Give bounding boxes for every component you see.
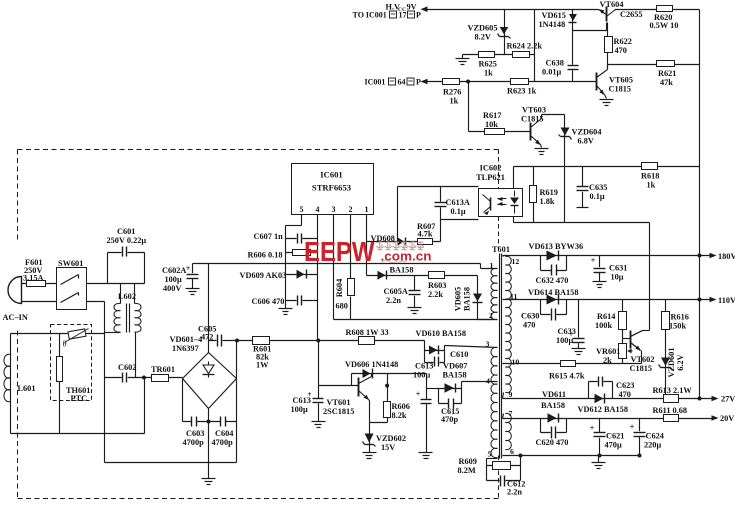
svg-text:C605A: C605A [384, 287, 408, 296]
svg-text:.com.cn: .com.cn [381, 250, 432, 264]
svg-text:220μ: 220μ [644, 441, 661, 450]
svg-text:C631: C631 [609, 264, 627, 273]
svg-text:R615 4.7k: R615 4.7k [549, 372, 585, 381]
svg-text:IC001: IC001 [365, 78, 386, 87]
svg-text:1k: 1k [450, 97, 459, 106]
svg-text:0.1μ: 0.1μ [451, 207, 466, 216]
svg-text:VD606 1N4148: VD606 1N4148 [345, 360, 398, 369]
svg-text:BA158: BA158 [463, 287, 472, 311]
svg-text:TLP621: TLP621 [476, 173, 505, 182]
svg-text:P: P [416, 11, 421, 20]
svg-text:C623: C623 [616, 381, 634, 390]
svg-text:C635: C635 [589, 183, 607, 192]
svg-text:P: P [416, 78, 421, 87]
svg-text:100μ: 100μ [165, 275, 182, 284]
svg-text:R606: R606 [392, 402, 410, 411]
svg-text:R617: R617 [483, 111, 501, 120]
svg-text:47k: 47k [660, 78, 673, 87]
svg-text:15V: 15V [381, 443, 395, 452]
svg-text:9: 9 [509, 390, 513, 399]
svg-text:R624 2.2k: R624 2.2k [507, 42, 543, 51]
svg-text:+: + [630, 423, 635, 432]
svg-text:1: 1 [490, 261, 494, 270]
svg-text:17: 17 [399, 11, 407, 20]
svg-text:110V: 110V [718, 296, 735, 305]
svg-text:C602A: C602A [162, 266, 186, 275]
svg-text:7: 7 [509, 409, 513, 418]
svg-text:C638: C638 [546, 59, 564, 68]
svg-text:VZD602: VZD602 [376, 434, 406, 443]
svg-text:6.8V: 6.8V [578, 137, 594, 146]
svg-text:8.2V: 8.2V [475, 33, 491, 42]
svg-text:TR601: TR601 [151, 365, 175, 374]
svg-text:C624: C624 [646, 432, 664, 441]
svg-text:C610: C610 [450, 350, 468, 359]
svg-text:5: 5 [488, 450, 492, 459]
svg-text:250V 0.22μ: 250V 0.22μ [107, 236, 147, 245]
svg-text:VD615: VD615 [542, 11, 566, 20]
svg-text:C603: C603 [186, 429, 204, 438]
svg-text:470μ: 470μ [605, 441, 622, 450]
svg-text:C1815: C1815 [521, 115, 544, 124]
svg-text:C606 470: C606 470 [252, 297, 285, 306]
svg-text:11: 11 [510, 292, 517, 301]
svg-text:C601: C601 [117, 227, 135, 236]
svg-text:VD609 AK03: VD609 AK03 [240, 271, 287, 280]
svg-text:C630: C630 [521, 312, 539, 321]
svg-text:6.2V: 6.2V [676, 354, 685, 370]
svg-text:6: 6 [510, 447, 514, 456]
svg-text:R609: R609 [459, 457, 477, 466]
svg-text:C621: C621 [606, 432, 624, 441]
svg-text:R622: R622 [614, 37, 632, 46]
svg-text:BA158: BA158 [541, 401, 565, 410]
svg-text:3: 3 [332, 205, 336, 214]
svg-text:4: 4 [486, 377, 490, 386]
svg-text:EEPW: EEPW [304, 236, 375, 267]
svg-text:12: 12 [512, 257, 520, 266]
svg-text:472: 472 [201, 333, 213, 342]
svg-text:C613A: C613A [446, 198, 470, 207]
svg-text:VT602: VT602 [631, 355, 655, 364]
svg-text:1k: 1k [484, 69, 493, 78]
svg-text:C607 1n: C607 1n [254, 232, 284, 241]
svg-text:10k: 10k [485, 120, 498, 129]
svg-text:R621: R621 [658, 69, 676, 78]
svg-text:VZD605: VZD605 [468, 24, 498, 33]
svg-text:150k: 150k [669, 322, 686, 331]
svg-text:PTC: PTC [71, 394, 88, 403]
svg-text:0.1μ: 0.1μ [590, 192, 605, 201]
svg-text:SW601: SW601 [58, 259, 83, 268]
svg-text:C602: C602 [118, 363, 136, 372]
svg-text:+: + [307, 390, 312, 399]
svg-text:C613: C613 [415, 362, 433, 371]
svg-text:1N6397: 1N6397 [172, 344, 199, 353]
svg-text:θ: θ [63, 339, 67, 349]
svg-text:4: 4 [316, 205, 320, 214]
svg-text:R616: R616 [671, 313, 689, 322]
svg-text:C632 470: C632 470 [536, 276, 569, 285]
svg-text:+: + [590, 424, 595, 433]
svg-text:R614: R614 [597, 312, 615, 321]
svg-text:VD601–4: VD601–4 [170, 335, 203, 344]
svg-text:100k: 100k [595, 321, 612, 330]
svg-text:R606 0.18: R606 0.18 [248, 251, 283, 260]
svg-text:+: + [416, 390, 421, 399]
svg-text:TO IC001: TO IC001 [353, 11, 387, 20]
svg-text:R603: R603 [428, 281, 446, 290]
svg-text:4700p: 4700p [183, 438, 205, 447]
svg-text:VD605: VD605 [454, 287, 463, 311]
svg-text:R613 2.1W: R613 2.1W [653, 386, 693, 395]
svg-text:IC602: IC602 [480, 164, 502, 173]
svg-text:VT604: VT604 [600, 0, 624, 9]
svg-text:T601: T601 [492, 245, 510, 254]
svg-text:VD610 BA158: VD610 BA158 [416, 329, 466, 338]
svg-text:2SC1815: 2SC1815 [323, 407, 354, 416]
svg-text:VD612 BA158: VD612 BA158 [578, 405, 628, 414]
svg-text:1N4148: 1N4148 [539, 20, 566, 29]
svg-text:R619: R619 [540, 188, 558, 197]
svg-text:VD613 BYW36: VD613 BYW36 [529, 242, 584, 251]
svg-text:VD611: VD611 [542, 390, 566, 399]
svg-text:680: 680 [336, 302, 348, 311]
svg-text:27V: 27V [721, 395, 735, 404]
svg-text:R276: R276 [443, 88, 461, 97]
svg-text:470: 470 [523, 321, 535, 330]
svg-text:L601: L601 [18, 384, 36, 393]
svg-text:AC–IN: AC–IN [3, 313, 28, 322]
svg-text:VD607: VD607 [443, 362, 467, 371]
svg-text:R623 1k: R623 1k [507, 87, 537, 96]
svg-text:3: 3 [486, 340, 490, 349]
svg-text:VD614 BA158: VD614 BA158 [528, 288, 578, 297]
svg-text:100μ: 100μ [291, 405, 308, 414]
svg-text:400V: 400V [163, 284, 181, 293]
svg-text:+: + [591, 256, 596, 265]
svg-text:C620 470: C620 470 [536, 438, 569, 447]
svg-text:3.15A: 3.15A [23, 274, 44, 283]
svg-text:10: 10 [512, 358, 520, 367]
svg-text:C2655: C2655 [620, 10, 643, 19]
svg-text:BA158: BA158 [390, 266, 414, 275]
svg-text:VT605: VT605 [609, 76, 633, 85]
svg-text:R625: R625 [479, 60, 497, 69]
svg-text:C1815: C1815 [630, 364, 653, 373]
svg-text:4.7k: 4.7k [418, 230, 433, 239]
svg-text:R611 0.68: R611 0.68 [653, 406, 688, 415]
svg-text:2.2n: 2.2n [386, 296, 401, 305]
svg-text:R608 1W 33: R608 1W 33 [346, 328, 389, 337]
svg-text:5: 5 [300, 205, 304, 214]
svg-text:180V: 180V [718, 252, 735, 261]
svg-text:1: 1 [365, 205, 369, 214]
svg-text:1W: 1W [256, 361, 269, 370]
svg-text:VD608: VD608 [371, 234, 395, 243]
svg-text:IC601: IC601 [320, 170, 342, 180]
svg-text:8.2k: 8.2k [392, 411, 407, 420]
svg-text:2.2n: 2.2n [507, 488, 522, 497]
svg-text:470: 470 [619, 390, 631, 399]
svg-text:4700p: 4700p [212, 438, 234, 447]
svg-text:R618: R618 [641, 172, 659, 181]
svg-text:0.01μ: 0.01μ [542, 68, 562, 77]
svg-text:2: 2 [349, 205, 353, 214]
svg-text:L602: L602 [118, 292, 136, 301]
svg-text:0.5W 10: 0.5W 10 [650, 21, 679, 30]
svg-text:2: 2 [489, 311, 493, 320]
svg-text:STRF6653: STRF6653 [312, 183, 351, 193]
svg-text:VZD601: VZD601 [667, 348, 676, 378]
svg-text:2k: 2k [603, 356, 612, 365]
svg-text:+: + [569, 330, 574, 339]
svg-text:C604: C604 [215, 429, 233, 438]
svg-text:R604: R604 [335, 279, 344, 297]
svg-text:VR601: VR601 [596, 347, 620, 356]
svg-text:470p: 470p [441, 415, 458, 424]
svg-text:VZD604: VZD604 [572, 128, 602, 137]
svg-text:VT601: VT601 [327, 398, 351, 407]
svg-text:1.8k: 1.8k [540, 197, 555, 206]
svg-text:8.2M: 8.2M [458, 466, 476, 475]
svg-text:VT603: VT603 [522, 106, 546, 115]
svg-text:470: 470 [615, 46, 627, 55]
svg-text:2.2k: 2.2k [428, 290, 443, 299]
svg-text:C1815: C1815 [609, 85, 632, 94]
svg-text:+: + [186, 264, 191, 273]
svg-text:100μ: 100μ [413, 371, 430, 380]
svg-text:64: 64 [398, 78, 406, 87]
svg-text:BA158: BA158 [443, 371, 467, 380]
svg-text:20V: 20V [720, 414, 734, 423]
svg-text:1k: 1k [647, 181, 656, 190]
svg-text:10μ: 10μ [611, 273, 624, 282]
